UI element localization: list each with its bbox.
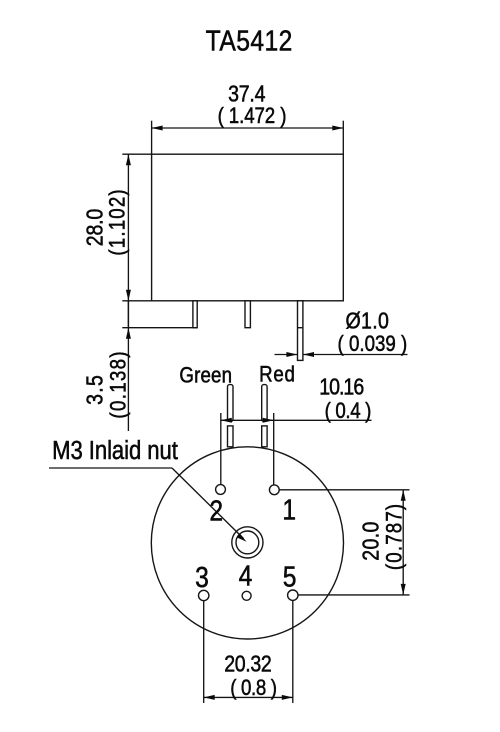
arrow 28.0 bottom xyxy=(126,290,131,301)
arrow 20.32 left xyxy=(204,695,215,700)
extension line body bottom left xyxy=(122,300,151,302)
extension line pin5 down xyxy=(292,600,294,703)
svg-text:10.16: 10.16 xyxy=(319,374,364,400)
svg-text:28.0: 28.0 xyxy=(82,209,108,247)
pin label 5 xyxy=(283,561,297,593)
arrow 20.32 right xyxy=(282,695,293,700)
dim text diameter 1.0 xyxy=(346,308,389,334)
extension line pin tip level xyxy=(122,327,197,329)
svg-text:M3 Inlaid nut: M3 Inlaid nut xyxy=(52,436,178,465)
dim text (0.039) xyxy=(338,332,408,356)
M3 nut outer circle xyxy=(232,527,263,558)
label Green xyxy=(179,364,232,388)
svg-text:Ø1.0: Ø1.0 xyxy=(346,308,389,334)
green lead wire lower xyxy=(228,426,234,447)
arrow 20.0 bottom xyxy=(401,584,406,595)
svg-text:TA5412: TA5412 xyxy=(206,25,293,57)
svg-text:4: 4 xyxy=(239,560,253,592)
arrow 37.4 right xyxy=(332,126,343,131)
dim text (0.4) xyxy=(325,399,372,423)
arrow 10.16 left xyxy=(221,418,232,423)
dim text (0.8) xyxy=(230,677,277,701)
pin 1 (left pin of body) xyxy=(193,301,197,328)
pin label 1 xyxy=(282,494,296,526)
pin 5 hole xyxy=(288,590,298,600)
arrow 20.0 top xyxy=(401,490,406,501)
svg-text:( 0.039 ): ( 0.039 ) xyxy=(338,332,408,356)
extension line pin3 down xyxy=(203,601,205,703)
pin 2 (middle pin of body) xyxy=(245,301,250,328)
red lead wire lower xyxy=(262,426,267,447)
M3 nut inner circle xyxy=(236,531,259,554)
svg-text:3: 3 xyxy=(195,561,209,593)
red lead wire upper xyxy=(262,385,267,422)
arrow 10.16 right xyxy=(263,418,274,423)
pin 3 hole xyxy=(199,590,209,600)
svg-text:Red: Red xyxy=(259,363,295,387)
pin 1 hole xyxy=(269,485,279,495)
arrow M3 nut xyxy=(237,534,247,542)
svg-text:20.0: 20.0 xyxy=(358,522,384,561)
dim text (0.787) rotated xyxy=(383,504,407,570)
title TA5412 xyxy=(206,25,293,57)
pin 4 hole xyxy=(242,591,251,600)
green lead wire upper xyxy=(228,385,234,422)
svg-text:Green: Green xyxy=(179,364,232,388)
leader line M3 nut diagonal xyxy=(172,468,244,539)
label M3 Inlaid nut xyxy=(52,436,178,465)
dim text 37.4 xyxy=(228,81,266,107)
svg-text:( 1.472 ): ( 1.472 ) xyxy=(218,105,287,129)
arrow diameter right xyxy=(303,352,314,357)
dimension line 20.32 xyxy=(204,696,293,698)
svg-text:(0.138): (0.138) xyxy=(107,351,131,418)
pin label 3 xyxy=(195,561,209,593)
label Red xyxy=(259,363,295,387)
arrow diameter left xyxy=(286,352,297,357)
extension line pin1 to 20.0 dim xyxy=(279,489,409,491)
svg-text:5: 5 xyxy=(283,561,297,593)
svg-text:(1.102): (1.102) xyxy=(106,189,130,255)
svg-text:(0.787): (0.787) xyxy=(383,504,407,570)
dim text (1.472) xyxy=(218,105,287,129)
leader line diameter 1.0 right xyxy=(303,354,408,356)
dim text 10.16 xyxy=(319,374,364,400)
dim text 20.0 rotated xyxy=(358,522,384,561)
dim text 28.0 rotated xyxy=(82,209,108,247)
extension line pin5 to 20.0 dim xyxy=(298,594,410,596)
extension line body top left xyxy=(122,153,151,155)
dim text 20.32 xyxy=(224,651,272,677)
pin 2 hole xyxy=(216,485,226,495)
svg-text:20.32: 20.32 xyxy=(224,651,272,677)
arrow 37.4 left xyxy=(152,126,163,131)
pin label 4 xyxy=(239,560,253,592)
dim text (1.102) rotated xyxy=(106,189,130,255)
svg-text:2: 2 xyxy=(209,495,223,527)
arrow 28.0 top xyxy=(126,154,131,165)
pin label 2 xyxy=(209,495,223,527)
dimension line 10.16 xyxy=(221,419,372,421)
pin 3 (right pin of body, long) xyxy=(298,301,303,361)
extension line 10.16 right xyxy=(273,413,275,485)
dim text 3.5 rotated xyxy=(82,375,108,405)
extension line 37.4 left xyxy=(151,121,153,155)
svg-text:( 0.4 ): ( 0.4 ) xyxy=(325,399,372,423)
bottom view circle xyxy=(151,447,343,639)
leader line diameter 1.0 left xyxy=(275,354,298,356)
svg-text:1: 1 xyxy=(282,494,296,526)
body outline (top view) xyxy=(152,154,344,301)
dimension line 28.0 vertical xyxy=(127,154,129,326)
dimension line 37.4 xyxy=(152,127,344,129)
extension line 37.4 right xyxy=(342,121,344,155)
extension line 10.16 left xyxy=(220,413,222,485)
arrow 3.5 up xyxy=(126,328,131,339)
dim text (0.138) rotated xyxy=(107,351,131,418)
svg-text:( 0.8 ): ( 0.8 ) xyxy=(230,677,277,701)
svg-text:37.4: 37.4 xyxy=(228,81,266,107)
svg-text:3.5: 3.5 xyxy=(82,375,108,405)
dimension line 3.5 tail xyxy=(127,301,129,431)
leader line M3 nut underline xyxy=(49,467,172,469)
dimension line 20.0 vertical xyxy=(402,490,404,595)
